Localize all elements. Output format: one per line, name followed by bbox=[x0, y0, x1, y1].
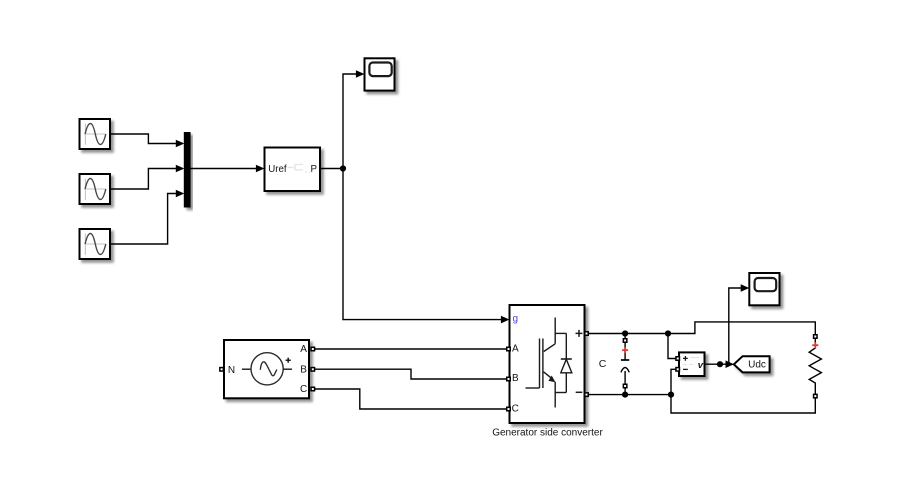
mux bbox=[184, 133, 190, 208]
port top of capacitor bbox=[623, 339, 627, 343]
wire - DC rail converter to resistor bbox=[589, 395, 815, 413]
resistor + polarity mark bbox=[812, 342, 818, 348]
capacitor + polarity mark bbox=[622, 347, 628, 353]
wire sine1 to mux bbox=[110, 134, 184, 147]
node on voltmeter output bbox=[717, 361, 723, 367]
node - rail at voltmeter branch bbox=[668, 392, 674, 398]
wire mux to PWM generator bbox=[190, 165, 264, 173]
Udc goto tag bbox=[734, 356, 770, 372]
wire + DC rail converter to resistor bbox=[589, 322, 815, 334]
wire phase B source to converter bbox=[314, 369, 506, 379]
svg-text:P: P bbox=[311, 164, 317, 175]
wire phase C source to converter bbox=[314, 389, 506, 409]
diode D1 inside converter bbox=[565, 333, 567, 359]
port N on source bbox=[220, 368, 224, 372]
port A on converter bbox=[507, 347, 511, 351]
svg-text:Uref: Uref bbox=[268, 164, 287, 175]
voltage measurement block U2 bbox=[676, 352, 705, 376]
wire branch to scope 2 bbox=[729, 284, 749, 364]
wire PWM output to node bbox=[320, 168, 343, 170]
node junction on PWM output bbox=[340, 165, 346, 171]
three-phase source block bbox=[220, 340, 315, 398]
svg-text:C: C bbox=[300, 384, 307, 395]
svg-text:A: A bbox=[512, 343, 519, 354]
wire sine3 to mux bbox=[110, 190, 184, 244]
svg-text:B: B bbox=[300, 365, 307, 376]
port - on converter bbox=[585, 393, 589, 397]
node + rail at voltmeter branch bbox=[665, 330, 671, 336]
capacitor C1 bbox=[621, 334, 629, 395]
caption Generator side converter bbox=[492, 428, 603, 439]
svg-text:N: N bbox=[228, 365, 235, 376]
port C on source bbox=[311, 387, 315, 391]
port bottom of capacitor bbox=[623, 384, 627, 388]
svg-text:Generator side converter: Generator side converter bbox=[492, 428, 603, 439]
port C on converter bbox=[507, 407, 511, 411]
scope 1 bbox=[365, 58, 395, 90]
port - on voltmeter bbox=[676, 368, 680, 372]
sine wave source block 1 bbox=[80, 119, 111, 149]
svg-text:A: A bbox=[300, 344, 307, 355]
node + rail at capacitor bbox=[622, 330, 628, 336]
svg-text:Udc: Udc bbox=[748, 360, 766, 371]
port top of resistor bbox=[814, 335, 818, 339]
wire sine2 to mux bbox=[110, 165, 184, 189]
port bottom of resistor bbox=[814, 394, 818, 398]
port + on voltmeter bbox=[676, 357, 680, 361]
wire phase A source to converter bbox=[314, 348, 506, 350]
svg-text:v: v bbox=[698, 360, 704, 371]
svg-text:g: g bbox=[513, 314, 519, 325]
PWM generator block U1 (Uref/P) bbox=[265, 148, 321, 192]
generator side converter block bbox=[507, 305, 589, 423]
node - rail at capacitor bbox=[622, 392, 628, 398]
wire node to scope 1 bbox=[343, 70, 364, 168]
capacitor label C bbox=[599, 358, 607, 370]
scope 2 bbox=[749, 273, 779, 305]
resistor load R1 bbox=[809, 335, 821, 398]
port A on source bbox=[311, 347, 315, 351]
svg-text:C: C bbox=[512, 404, 519, 415]
sine wave source block 2 bbox=[80, 174, 111, 204]
svg-text:B: B bbox=[512, 373, 519, 384]
wire + rail to voltmeter plus bbox=[668, 334, 677, 359]
sine wave source block 3 bbox=[80, 229, 111, 259]
port B on converter bbox=[507, 377, 511, 381]
port B on source bbox=[311, 368, 315, 372]
port + on converter bbox=[585, 332, 589, 336]
wire voltmeter output to Udc goto tag bbox=[705, 360, 735, 368]
svg-text:C: C bbox=[599, 358, 607, 370]
wire node to converter gate g bbox=[343, 169, 509, 324]
IGBT Q1 inside converter bbox=[554, 318, 556, 344]
wire - rail to voltmeter minus bbox=[671, 369, 677, 394]
